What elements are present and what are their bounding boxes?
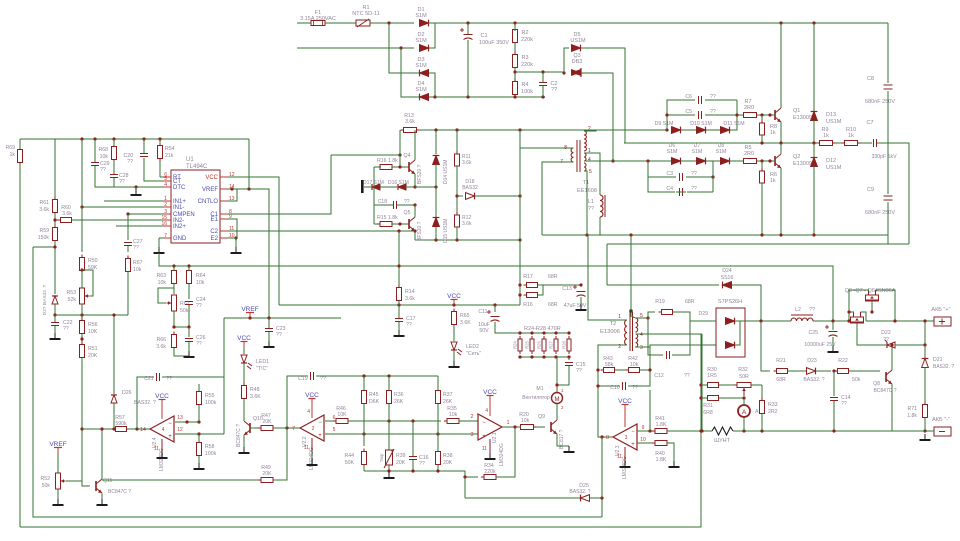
- resistor R8: [761, 120, 763, 123]
- svg-text:+: +: [168, 434, 172, 440]
- pin 14 VREF: [220, 188, 227, 190]
- connector AKB plus: [934, 317, 951, 326]
- diode D18: [466, 193, 475, 200]
- capacitor C6: [698, 96, 700, 104]
- svg-text:GND: GND: [173, 236, 187, 242]
- wire T2 pin1 from return: [588, 235, 627, 320]
- svg-text:220k: 220k: [521, 62, 533, 68]
- svg-text:4: 4: [162, 427, 165, 433]
- ground R52: [57, 499, 59, 505]
- svg-text:R31: R31: [703, 403, 713, 409]
- capacitor C24: [185, 301, 193, 303]
- wire T1 pin5 to return: [584, 171, 587, 235]
- svg-text:Тмр: Тмр: [379, 453, 385, 462]
- pin 3 CMPEN: [164, 213, 171, 215]
- svg-text:R67: R67: [133, 260, 143, 266]
- wire y471 rail: [364, 471, 465, 477]
- svg-text:3.6k: 3.6k: [39, 207, 49, 213]
- resistor R20: [518, 426, 521, 428]
- svg-text:??: ??: [63, 326, 69, 332]
- wire rectifier out: [745, 320, 791, 322]
- capacitor C28: [110, 174, 118, 176]
- svg-text:C7: C7: [866, 120, 873, 126]
- svg-text:2R0: 2R0: [744, 151, 754, 157]
- wire R54 to RT: [159, 160, 161, 177]
- svg-text:Q2: Q2: [793, 154, 800, 160]
- resistor R66: [173, 332, 175, 335]
- svg-text:DTC: DTC: [173, 185, 186, 191]
- svg-text:R65: R65: [460, 313, 470, 319]
- resistor R43: [601, 369, 604, 371]
- pin 11 U2.1: [489, 439, 491, 454]
- svg-text:50V: 50V: [479, 328, 489, 334]
- svg-text:R69: R69: [5, 145, 15, 151]
- diode D25: [465, 497, 580, 499]
- svg-text:BFS20 ?: BFS20 ?: [417, 164, 423, 184]
- svg-text:10k: 10k: [100, 154, 109, 160]
- svg-text:M: M: [555, 397, 560, 403]
- svg-text:SS16: SS16: [721, 275, 734, 281]
- wire Q1 emitter to mid rail: [780, 122, 782, 143]
- trimmer R32: [734, 384, 737, 386]
- svg-text:??: ??: [127, 159, 133, 165]
- diode D26: [111, 395, 117, 403]
- svg-text:C25: C25: [808, 330, 818, 336]
- svg-text:150k: 150k: [38, 235, 50, 241]
- wire T2 pin3 to rectifier: [650, 345, 716, 347]
- svg-text:590k: 590k: [115, 421, 127, 427]
- ground under E2: [235, 247, 237, 253]
- svg-text:Q11: Q11: [103, 478, 113, 484]
- svg-text:D15 US1M: D15 US1M: [443, 219, 449, 243]
- capacitor C18: [393, 201, 395, 209]
- svg-text:BC847C ?: BC847C ?: [873, 388, 896, 394]
- svg-text:13: 13: [177, 415, 183, 421]
- svg-text:??: ??: [576, 368, 582, 374]
- svg-text:R19: R19: [655, 299, 665, 305]
- motor M1 fan: [552, 393, 563, 404]
- wire VREF top net: [20, 138, 249, 140]
- svg-text:R48: R48: [250, 387, 260, 393]
- op-amp U2.2: [300, 415, 324, 441]
- svg-text:??: ??: [691, 171, 697, 177]
- diode D3: [420, 70, 429, 77]
- svg-text:D24: D24: [722, 268, 732, 274]
- wire Q2 emitter to return rail: [780, 168, 782, 235]
- pin 5 CT: [164, 180, 171, 182]
- svg-text:14: 14: [140, 427, 146, 433]
- svg-text:D10 S1M: D10 S1M: [690, 121, 712, 127]
- junction D27 C22: [53, 313, 56, 316]
- svg-text:20K: 20K: [396, 460, 406, 466]
- svg-text:R24-R28 470R: R24-R28 470R: [524, 326, 561, 332]
- capacitor C16: [409, 456, 417, 458]
- svg-text:2: 2: [164, 202, 167, 208]
- resistor R50: [81, 255, 83, 258]
- wire AC line N to D2: [297, 47, 414, 49]
- wire half-bridge mid rail: [624, 142, 872, 144]
- resistor R14: [398, 285, 400, 288]
- resistor R71: [924, 402, 926, 405]
- svg-text:R26: R26: [536, 340, 541, 348]
- svg-text:??: ??: [419, 461, 425, 467]
- svg-text:58k: 58k: [605, 362, 614, 368]
- wire D2 out to plus rail: [429, 23, 435, 48]
- svg-text:3: 3: [640, 345, 643, 351]
- wire main HV minus rail: [435, 96, 545, 98]
- wire to C2 and DB3: [515, 71, 552, 73]
- pin 11 U2.3: [624, 447, 626, 462]
- svg-text:R53: R53: [66, 290, 76, 296]
- svg-text:1k: 1k: [823, 133, 829, 139]
- thermistor R1 NTC: [356, 20, 370, 26]
- svg-text:20K: 20K: [88, 353, 98, 359]
- svg-text:100k: 100k: [205, 451, 217, 457]
- svg-text:3.6k: 3.6k: [462, 160, 472, 166]
- resistor R47: [258, 427, 261, 429]
- wire E2 stub: [227, 237, 236, 239]
- svg-text:1: 1: [506, 420, 509, 426]
- svg-text:R39: R39: [396, 453, 406, 459]
- resistor R41: [652, 430, 655, 432]
- svg-text:US1M: US1M: [826, 165, 842, 171]
- wire fan rail bottom: [520, 356, 569, 358]
- svg-text:C9: C9: [867, 187, 874, 193]
- svg-text:S7PS26H: S7PS26H: [718, 299, 742, 305]
- svg-text:Q9: Q9: [538, 414, 545, 420]
- svg-text:R3: R3: [521, 55, 528, 61]
- ground C22: [54, 333, 56, 339]
- resistor R13: [401, 129, 404, 131]
- svg-text:6R8: 6R8: [703, 410, 713, 416]
- svg-text:11: 11: [154, 446, 159, 452]
- diode D16: [398, 184, 406, 190]
- diode D11: [721, 127, 730, 134]
- svg-text:C21: C21: [144, 376, 154, 382]
- resistor R60: [58, 219, 61, 221]
- svg-text:D23: D23: [807, 358, 817, 364]
- ground LED2: [453, 361, 455, 367]
- svg-text:4: 4: [485, 408, 488, 414]
- svg-text:68R: 68R: [685, 299, 695, 305]
- wire U2.4 pin12: [175, 433, 224, 435]
- svg-text:R32: R32: [738, 367, 748, 373]
- svg-text:S1M: S1M: [415, 13, 427, 19]
- svg-text:US1M: US1M: [826, 119, 842, 125]
- wire CMPEN left: [128, 213, 164, 215]
- svg-text:??: ??: [841, 401, 847, 407]
- svg-text:E1: E1: [211, 217, 219, 223]
- resistor R55: [198, 389, 200, 392]
- wire bias column: [519, 130, 521, 240]
- pin 1 IN1+: [164, 200, 171, 202]
- wire Q11 collector up: [101, 429, 103, 479]
- ground C23: [268, 341, 270, 347]
- inductor L2: [791, 318, 813, 321]
- svg-text:26K: 26K: [394, 399, 404, 405]
- diode D13: [811, 112, 818, 121]
- svg-text:R63: R63: [156, 273, 166, 279]
- pin 13 CNTLO: [220, 200, 227, 202]
- svg-text:68R: 68R: [548, 302, 558, 308]
- svg-text:12: 12: [177, 427, 183, 433]
- svg-text:R22: R22: [838, 358, 848, 364]
- svg-text:50k: 50k: [180, 308, 189, 314]
- svg-text:3.15A 250VAC: 3.15A 250VAC: [300, 16, 336, 22]
- wire column x82 to comparator: [81, 358, 83, 481]
- junction C6 left bottom: [665, 128, 668, 131]
- svg-text:10k: 10k: [133, 267, 142, 273]
- svg-text:2R2: 2R2: [768, 409, 778, 415]
- mosfet Q7: [851, 317, 864, 323]
- wire driver left rail: [373, 167, 375, 224]
- svg-text:BAS32: BAS32: [462, 185, 478, 191]
- svg-text:S1M: S1M: [415, 38, 427, 44]
- svg-text:−: −: [482, 420, 486, 426]
- ground Q9: [568, 446, 570, 452]
- wire control ground rail: [159, 253, 833, 321]
- svg-text:1.8k: 1.8k: [907, 413, 917, 419]
- inductor L1: [600, 195, 603, 217]
- svg-text:BC847C ?: BC847C ?: [108, 489, 131, 495]
- svg-text:26K: 26K: [443, 399, 453, 405]
- diode D1: [420, 20, 429, 27]
- ground U2.1: [489, 453, 491, 459]
- transistor Q10: [249, 423, 251, 433]
- svg-text:D11 S1M: D11 S1M: [723, 121, 744, 127]
- wire left column top: [54, 139, 56, 199]
- junction T2 dot: [629, 309, 632, 312]
- svg-text:R33: R33: [768, 402, 778, 408]
- svg-text:C1: C1: [480, 33, 487, 39]
- resistor R65: [453, 309, 455, 312]
- diode D10: [697, 127, 706, 134]
- svg-text:1: 1: [618, 314, 621, 320]
- svg-text:50k: 50k: [852, 377, 861, 383]
- svg-text:20K: 20K: [262, 419, 272, 425]
- junction minus node: [433, 95, 436, 98]
- svg-text:C18: C18: [378, 199, 387, 205]
- wire comparator net: [55, 314, 128, 316]
- svg-text:10k: 10k: [158, 280, 167, 286]
- wire R53 wiper to top: [82, 270, 93, 296]
- svg-text:Q6 -Q7 - Q64SN06A: Q6 -Q7 - Q64SN06A: [845, 288, 896, 294]
- wire R62 wiper: [158, 288, 174, 303]
- wire R42 to T2 pin3: [635, 347, 650, 370]
- svg-text:C3: C3: [666, 171, 673, 177]
- wire comparator to D26: [113, 315, 115, 394]
- capacitor C9: [884, 195, 893, 197]
- svg-text:??: ??: [196, 341, 202, 347]
- svg-text:R4: R4: [521, 82, 528, 88]
- wire C28 bottom: [114, 178, 136, 187]
- ground cluster: [188, 351, 190, 357]
- svg-text:50k: 50k: [42, 483, 51, 489]
- svg-text:??: ??: [406, 322, 412, 328]
- pin 2 IN1-: [164, 206, 171, 208]
- svg-text:4: 4: [164, 182, 167, 188]
- svg-text:??: ??: [691, 186, 697, 192]
- svg-text:47uF 50V: 47uF 50V: [564, 303, 587, 309]
- wire cap box mid: [667, 114, 695, 116]
- transistor Q4: [408, 162, 410, 172]
- resistor R5: [741, 160, 744, 162]
- svg-text:3.6k: 3.6k: [462, 221, 472, 227]
- resistor R51: [81, 342, 83, 345]
- svg-text:1k: 1k: [770, 130, 776, 136]
- svg-text:+: +: [631, 442, 635, 448]
- svg-text:C12: C12: [654, 373, 664, 379]
- wire R59 branch: [33, 246, 55, 248]
- trimmer R53: [80, 288, 85, 304]
- svg-text:10K: 10K: [337, 412, 347, 418]
- ammeter A1: [738, 405, 750, 417]
- resistor R21: [774, 370, 777, 372]
- resistor R59: [54, 225, 56, 228]
- svg-text:R51: R51: [88, 346, 98, 352]
- svg-text:E2: E2: [211, 236, 219, 242]
- wire shunt rail left: [701, 430, 712, 432]
- svg-text:D27 BAS32. ?: D27 BAS32. ?: [42, 284, 48, 315]
- wire U2.4 pin13: [175, 421, 199, 423]
- wire Q4 emitter down: [414, 174, 416, 187]
- wire R13 branch: [399, 130, 401, 167]
- wire to D24 line: [606, 244, 608, 285]
- svg-text:??: ??: [119, 179, 125, 185]
- capacitor C2: [539, 82, 547, 84]
- svg-text:3.6k: 3.6k: [405, 119, 415, 125]
- wire IN1+ left: [104, 200, 164, 202]
- svg-text:L1: L1: [588, 199, 594, 205]
- capacitor C5: [698, 111, 700, 119]
- diode D24: [723, 282, 732, 289]
- wire drive row upper: [402, 129, 667, 131]
- svg-text:LM324DG: LM324DG: [499, 443, 505, 466]
- transistor Q2: [774, 156, 776, 166]
- led LED2: [451, 342, 457, 350]
- diode D27: [52, 296, 58, 304]
- ground R40: [673, 461, 675, 467]
- resistor R63: [173, 268, 175, 271]
- svg-text:R71: R71: [907, 406, 917, 412]
- svg-text:BFS20 ?: BFS20 ?: [417, 221, 423, 241]
- wire current rail: [733, 430, 925, 432]
- svg-text:"Сеть": "Сеть": [466, 351, 481, 357]
- wire D3 D4 common: [429, 73, 435, 97]
- wire D25 to U2.3 out: [601, 437, 603, 498]
- ground battery minus: [924, 434, 926, 440]
- resistor R19: [659, 311, 662, 313]
- pin 11 U2.2: [311, 438, 313, 452]
- wire C20 to CT: [144, 158, 164, 181]
- wire plus rail to D13: [813, 23, 815, 112]
- svg-text:CNTLO: CNTLO: [198, 199, 219, 205]
- svg-text:100uF 350V: 100uF 350V: [479, 40, 509, 46]
- wire y434 net: [331, 433, 438, 435]
- svg-text:S1M: S1M: [415, 87, 427, 93]
- svg-text:АКБ "-": АКБ "-": [932, 417, 950, 423]
- wire E1 down: [227, 219, 237, 238]
- svg-text:??: ??: [551, 87, 557, 93]
- svg-text:S1M: S1M: [415, 63, 427, 69]
- diode D14: [433, 156, 440, 165]
- svg-text:10000uF 25V: 10000uF 25V: [804, 342, 836, 348]
- svg-text:1R5: 1R5: [707, 373, 717, 379]
- pin 10 E2: [220, 237, 227, 239]
- resistor R37: [437, 388, 439, 391]
- wire DTC left: [136, 186, 164, 188]
- svg-text:??: ??: [883, 337, 889, 343]
- svg-text:??: ??: [588, 206, 594, 212]
- svg-text:T1: T1: [583, 180, 590, 186]
- svg-text:U1: U1: [186, 157, 194, 163]
- svg-text:C13: C13: [562, 286, 572, 292]
- svg-text:8: 8: [606, 435, 609, 441]
- wire U2.3 pin10: [637, 442, 655, 444]
- wire snubber lower rail: [607, 243, 909, 245]
- transformer T1: [576, 140, 578, 172]
- wire Q11 base: [82, 481, 90, 486]
- svg-text:4: 4: [640, 332, 643, 338]
- svg-text:??: ??: [684, 373, 690, 379]
- capacitor C12: [666, 351, 668, 359]
- svg-text:C4: C4: [666, 186, 673, 192]
- svg-text:BAS32. ?: BAS32. ?: [803, 377, 824, 383]
- led LED1: [243, 347, 245, 354]
- svg-text:D22: D22: [881, 330, 891, 336]
- svg-text:20K: 20K: [262, 471, 272, 477]
- resistor R56: [81, 318, 83, 321]
- wire column x82 upper: [81, 139, 83, 252]
- svg-text:D17 S1M: D17 S1M: [363, 180, 384, 186]
- svg-text:D13: D13: [826, 112, 836, 118]
- pin 4 U2.4 power: [161, 405, 163, 419]
- svg-text:50K: 50K: [345, 460, 355, 466]
- svg-text:1.8K: 1.8K: [656, 422, 667, 428]
- resistor R10: [842, 142, 845, 144]
- pin 4 U2.1 power: [489, 401, 491, 416]
- svg-text:10k: 10k: [196, 280, 205, 286]
- wire VCC rail: [279, 304, 520, 306]
- junction C3 left: [646, 159, 649, 162]
- wire R52 wiper: [66, 480, 82, 482]
- svg-text:S1M: S1M: [667, 149, 678, 155]
- wire Q8 emitter down: [891, 384, 893, 431]
- wire D24 line: [607, 284, 719, 286]
- resistor R67: [127, 256, 129, 259]
- svg-text:TL494C: TL494C: [186, 164, 208, 170]
- pin 16 IN2+: [164, 225, 171, 227]
- wire y376 rail: [337, 375, 438, 377]
- transistor Q11: [95, 481, 97, 491]
- diode D17: [372, 184, 380, 190]
- svg-text:C2: C2: [210, 229, 218, 235]
- capacitor C1: [464, 34, 473, 36]
- wire D1 out: [429, 22, 435, 24]
- capacitor C19 feedback: [287, 376, 308, 428]
- svg-text:S1M: S1M: [716, 149, 727, 155]
- wire T1 pin8 to bias: [520, 147, 574, 149]
- svg-text:4: 4: [588, 157, 591, 163]
- svg-text:BAS32. ?: BAS32. ?: [569, 489, 590, 495]
- pin 4 DTC: [164, 186, 171, 188]
- wire DB3 to T1 row: [581, 73, 613, 161]
- svg-text:M1: M1: [536, 386, 543, 392]
- capacitor C23: [265, 328, 273, 330]
- resistor R12: [456, 212, 458, 215]
- svg-text:7: 7: [164, 233, 167, 239]
- capacitor C8: [884, 84, 893, 86]
